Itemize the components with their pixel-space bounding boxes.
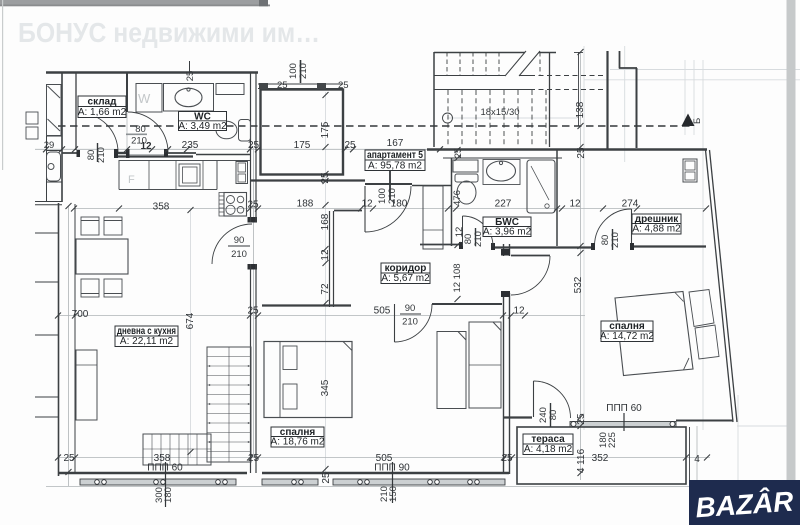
svg-text:345: 345 [320, 379, 331, 396]
landing edge solid [434, 75, 530, 77]
svg-text:A: 4,88 m2: A: 4,88 m2 [632, 224, 681, 235]
svg-text:A: 95,78 m2: A: 95,78 m2 [368, 161, 422, 172]
room label spalnya bottom [271, 427, 325, 448]
svg-text:235: 235 [182, 140, 199, 151]
spine wall vertical center-right [503, 244, 505, 256]
bazar logo box [689, 480, 800, 525]
neighbor divider walls [46, 85, 62, 183]
svg-text:25: 25 [247, 306, 259, 317]
dimension base lines [35, 52, 742, 487]
terrace north wall and door [504, 416, 532, 418]
svg-text:25: 25 [576, 413, 587, 425]
wall sklad east [126, 72, 128, 112]
bath vanity [453, 160, 478, 172]
door fraction bath 80/210 rotated [463, 231, 484, 247]
svg-text:227: 227 [495, 199, 512, 210]
wall step left at y200 [35, 201, 62, 203]
wardrobe column 1 [437, 332, 466, 409]
stairwell divider [549, 52, 551, 147]
kitchen tall cabinet [236, 162, 248, 184]
rotated dim column x328 [320, 121, 332, 483]
terrace window parapet [570, 413, 676, 431]
svg-text:476: 476 [452, 190, 463, 206]
room label sklad [78, 96, 127, 118]
rotated pair 180/225 terrace [598, 432, 618, 448]
door bedroom bottom [394, 304, 396, 342]
wc sink cabinet [164, 84, 214, 112]
neighbor room left rect [47, 85, 62, 136]
wall entry y153 segments [62, 152, 80, 154]
landing edge dashed [530, 75, 607, 77]
svg-text:168: 168 [320, 213, 331, 230]
svg-text:90: 90 [234, 235, 245, 246]
door jambs entry [77, 149, 169, 158]
neighbor margin boxes [26, 112, 38, 124]
light jamb line sklad east lower [126, 112, 128, 150]
wall wc-shaft double vertical [250, 72, 252, 222]
room label dreshnik [632, 214, 681, 235]
svg-text:12: 12 [569, 199, 581, 210]
wall kitchen top thick [116, 155, 193, 157]
room label BWC [483, 217, 532, 238]
dim fraction 100/210 top [288, 63, 309, 79]
rotated dim column x460 [452, 148, 465, 293]
bath shower [527, 160, 555, 213]
bottom outer wall [58, 472, 247, 475]
wall hall north short [334, 210, 362, 212]
kitchen sink square [179, 164, 200, 186]
svg-text:25: 25 [321, 472, 332, 484]
svg-text:188: 188 [297, 199, 314, 210]
diagonal outer wall right [706, 150, 734, 422]
bed right rotated [615, 290, 719, 376]
left nib walls [35, 233, 58, 417]
top right corner walls [606, 51, 608, 149]
balcony railing bottom segments [80, 479, 505, 485]
wall left vertical upper [61, 72, 63, 202]
door arc kitchen [212, 224, 252, 264]
svg-text:674: 674 [185, 312, 196, 329]
svg-text:210: 210 [387, 188, 398, 204]
svg-text:апартамент 5: апартамент 5 [367, 150, 423, 161]
svg-text:25: 25 [185, 71, 196, 82]
svg-text:90: 90 [405, 303, 416, 314]
svg-text:225: 225 [607, 432, 618, 448]
rotated dim column x584 [573, 101, 587, 473]
room label WC [178, 111, 227, 132]
sofa bottom part [143, 434, 211, 465]
svg-text:12: 12 [320, 249, 331, 261]
svg-text:175: 175 [294, 140, 311, 151]
door apartment5 lintel and leaf [365, 183, 412, 185]
svg-text:80: 80 [135, 124, 146, 135]
door fraction terrace 240/80 rotated [538, 407, 559, 423]
wall sklad west [75, 72, 77, 150]
door fraction 100/210 apartment door [377, 188, 398, 204]
bathroom door leaf and arc [462, 216, 464, 246]
svg-text:12: 12 [513, 306, 525, 317]
bedroom bottom north wall [262, 304, 351, 306]
svg-text:25: 25 [576, 147, 587, 159]
terrace slab [517, 427, 686, 484]
construction grid light lines [191, 46, 800, 525]
svg-text:358: 358 [153, 202, 170, 213]
svg-text:A: 1,66 m2: A: 1,66 m2 [78, 107, 127, 118]
svg-text:12: 12 [361, 199, 373, 210]
big square room [261, 90, 344, 175]
wall under square [250, 179, 365, 181]
room label koridor [381, 263, 430, 284]
wall left outer edge upper [46, 84, 48, 201]
wall living west inner [74, 204, 76, 472]
wc toilet [216, 121, 237, 139]
room label spalnya right [600, 321, 654, 342]
window band above square [258, 83, 343, 85]
svg-text:25: 25 [277, 80, 288, 91]
wardrobe column 2 [469, 322, 501, 408]
left edge light line [2, 0, 3, 170]
door corridor-bedroom right [511, 255, 550, 257]
svg-text:склад: склад [88, 97, 118, 108]
wall corridor north piece [412, 185, 451, 187]
wc cabinet small [216, 84, 244, 95]
svg-text:A: 5,67 m2: A: 5,67 m2 [381, 273, 430, 284]
svg-text:80: 80 [548, 410, 559, 421]
door fraction dreshnik 80/210 rotated [600, 232, 621, 248]
dining chairs [81, 217, 122, 297]
bedroom right south wall east part [676, 420, 734, 422]
door arc wc entry [128, 112, 168, 152]
dreshnik cupboard [683, 159, 697, 182]
svg-text:210: 210 [402, 317, 418, 328]
svg-text:25: 25 [338, 80, 349, 91]
svg-text:210: 210 [298, 63, 309, 79]
dim line 138 [578, 52, 580, 126]
svg-text:138: 138 [575, 101, 586, 118]
corridor shaft column [423, 186, 443, 249]
svg-text:A: 3,49 m2: A: 3,49 m2 [178, 121, 227, 132]
stair treads lower flight [448, 90, 546, 147]
north axis triangle marker [682, 114, 695, 127]
svg-text:167: 167 [387, 138, 404, 149]
sofa vertical part [207, 347, 251, 462]
dimension tick marks [43, 49, 710, 476]
wall hall east vertical [329, 211, 331, 307]
svg-text:210: 210 [231, 249, 247, 260]
dreshnik wall and door [632, 245, 706, 247]
room label dnevna s kuhnya [115, 326, 178, 347]
wall left outer lower [58, 203, 60, 476]
svg-text:175: 175 [320, 121, 331, 138]
stairwell left wall [433, 52, 435, 147]
door arc sklad [79, 113, 118, 152]
stair axis circle [443, 113, 453, 123]
svg-text:F: F [128, 174, 135, 186]
svg-text:A: 3,96 m2: A: 3,96 m2 [483, 227, 532, 238]
svg-text:210: 210 [610, 232, 621, 248]
svg-text:4: 4 [694, 454, 700, 465]
stair break slashes [505, 51, 540, 76]
bath sink [483, 160, 520, 185]
svg-text:72: 72 [320, 283, 331, 295]
svg-text:A: 22,11 m2: A: 22,11 m2 [120, 336, 174, 347]
neighbor bathtub [47, 152, 61, 181]
bathroom door jambs [459, 242, 463, 249]
svg-text:БОНУС недвижими им…: БОНУС недвижими им… [18, 17, 320, 48]
dining table [76, 239, 128, 274]
svg-text:180: 180 [163, 487, 174, 503]
bed bottom-left [264, 342, 352, 418]
room label terasa [523, 434, 573, 455]
svg-text:210: 210 [131, 136, 147, 147]
svg-text:532: 532 [573, 276, 584, 293]
svg-text:A: 18,76 m2: A: 18,76 m2 [271, 437, 325, 448]
svg-text:ППП 60: ППП 60 [606, 403, 642, 414]
wc sink oval [175, 88, 202, 106]
kitchen hatch strip [219, 193, 224, 217]
svg-text:700: 700 [72, 309, 89, 320]
stair treads upper flight [447, 52, 540, 75]
svg-text:W: W [138, 91, 151, 106]
bath toilet [455, 174, 478, 182]
svg-text:A: 4,18 m2: A: 4,18 m2 [524, 444, 573, 455]
washer W [136, 84, 162, 113]
kitchen counter band [119, 160, 251, 162]
svg-text:12 108: 12 108 [452, 263, 463, 292]
svg-text:274: 274 [622, 199, 639, 210]
svg-text:150: 150 [388, 486, 399, 502]
rotated pair 300/180 [154, 487, 174, 503]
svg-text:Б: Б [692, 118, 703, 124]
wall below stairs long [427, 148, 707, 150]
svg-text:505: 505 [374, 306, 391, 317]
svg-text:25: 25 [344, 140, 356, 151]
right edge gray strip [787, 0, 796, 525]
rotated pair 210/150 [379, 486, 399, 502]
svg-text:18x15/30: 18x15/30 [480, 107, 519, 118]
svg-text:A: 14,72 m2: A: 14,72 m2 [600, 331, 654, 342]
bathroom walls [443, 157, 562, 159]
door fraction sklad 80/210 [86, 147, 107, 163]
living cabinet left [76, 350, 97, 420]
wall top-left outer [46, 71, 258, 74]
kitchen stove [224, 193, 247, 217]
top gray bar [0, 0, 263, 5]
main dashed axis [58, 125, 694, 127]
svg-text:4 116: 4 116 [576, 448, 587, 473]
room label apartament 5 [365, 150, 425, 172]
stairwell top wall [434, 52, 556, 54]
svg-text:352: 352 [592, 453, 609, 464]
